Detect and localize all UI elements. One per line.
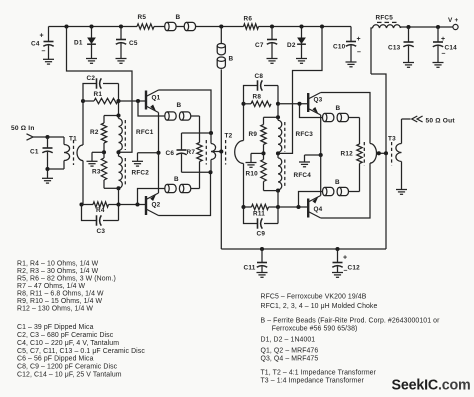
svg-text:R5, R6 – 82 Ohms, 3 W (Nom.): R5, R6 – 82 Ohms, 3 W (Nom.) xyxy=(17,275,116,282)
ground C11 xyxy=(257,273,268,278)
node T3 tap a xyxy=(377,151,381,155)
svg-text:R7: R7 xyxy=(187,149,196,156)
svg-text:T3 – 1:4 Impedance Transformer: T3 – 1:4 Impedance Transformer xyxy=(261,377,365,384)
resistor R2 xyxy=(90,116,107,153)
wire input to T1 xyxy=(48,137,65,169)
output wire xyxy=(402,118,411,120)
wire T1 secondary top to node A xyxy=(82,101,84,145)
node T3 tap b xyxy=(384,151,388,155)
node rail-bias-right xyxy=(320,24,324,28)
capacitor C4 xyxy=(31,27,54,60)
inductor RFC1 xyxy=(119,116,154,153)
capacitor C13 xyxy=(388,27,414,63)
node R9-R10 junction xyxy=(261,151,265,155)
svg-text:C8: C8 xyxy=(255,73,264,80)
wire emitter ground stub stage2 xyxy=(305,155,321,162)
node C7-rail xyxy=(270,24,274,28)
wire R2-RFC1 top node xyxy=(104,113,121,117)
transistor Q2 xyxy=(146,193,161,216)
svg-text:+: + xyxy=(343,255,347,262)
wire R9-RFC3 top node xyxy=(264,115,281,119)
svg-text:V +: V + xyxy=(448,17,458,24)
svg-text:50 Ω In: 50 Ω In xyxy=(11,125,35,132)
wire Q2 base-bead path xyxy=(138,189,165,205)
svg-text:C12: C12 xyxy=(348,265,361,272)
diode D1 xyxy=(74,27,96,59)
node C14 xyxy=(436,25,440,29)
wire Q2 collector xyxy=(159,172,211,215)
wire T2 bottom node xyxy=(182,171,211,173)
ground input xyxy=(42,169,53,183)
svg-text:RFC5: RFC5 xyxy=(376,14,394,21)
capacitor C8 xyxy=(244,73,279,104)
capacitor C5 xyxy=(116,27,138,59)
svg-text:C5, C7, C11, C13 – 0.1 μF Cera: C5, C7, C11, C13 – 0.1 μF Ceramic Disc xyxy=(17,348,145,355)
svg-text:C12, C14 – 10 μF, 25 V Tantalu: C12, C14 – 10 μF, 25 V Tantalum xyxy=(17,372,122,379)
wire base Q1 xyxy=(119,100,147,102)
node D2-rail xyxy=(299,24,303,28)
svg-text:C13: C13 xyxy=(388,45,401,52)
inductor RFC3 xyxy=(278,117,313,153)
svg-text:B – Ferrite Beads (Fair-Rite P: B – Ferrite Beads (Fair-Rite Prod. Corp.… xyxy=(261,318,441,325)
transformer T2 secondary xyxy=(235,104,244,207)
node emitter mid stage2 xyxy=(319,153,323,157)
capacitor C9 xyxy=(244,207,279,238)
node C13 xyxy=(406,25,410,29)
svg-text:Q3, Q4 – MRF475: Q3, Q4 – MRF475 xyxy=(261,355,319,362)
svg-text:T1: T1 xyxy=(69,135,77,142)
ferrite bead B Q2-a xyxy=(165,184,176,192)
resistor R6 xyxy=(244,16,259,30)
svg-text:B: B xyxy=(174,176,179,183)
node Q3 base xyxy=(297,102,301,106)
node RFC1-RFC2 junction xyxy=(116,150,120,154)
svg-text:SeekIC.com: SeekIC.com xyxy=(392,377,471,393)
svg-text:R3: R3 xyxy=(92,169,101,176)
svg-text:+: + xyxy=(357,36,361,43)
label B Q4 beads xyxy=(335,179,340,186)
svg-text:R1, R4 – 10 Ohms, 1/4 W: R1, R4 – 10 Ohms, 1/4 W xyxy=(17,260,99,267)
ferrite bead B (R5 right) xyxy=(184,22,195,30)
wire bottom node xyxy=(104,188,119,204)
node Q1 base xyxy=(136,99,140,103)
svg-text:RFC5 – Ferroxcube VK200 19/4B: RFC5 – Ferroxcube VK200 19/4B xyxy=(261,293,367,300)
svg-text:R8: R8 xyxy=(253,94,262,101)
transistor Q4 xyxy=(308,196,322,219)
svg-text:R2: R2 xyxy=(90,129,99,136)
ferrite bead B Q2-b xyxy=(179,184,190,192)
terminal V+ xyxy=(448,17,458,30)
wire Q1 emitter xyxy=(158,113,160,153)
node Q4 base xyxy=(296,205,300,209)
svg-text:B: B xyxy=(176,14,181,21)
ferrite bead B Q3-b xyxy=(337,113,348,121)
wire Q4 base-bead path xyxy=(299,192,323,208)
wire T2 top node xyxy=(182,132,212,134)
ground for C14 xyxy=(433,63,444,68)
svg-text:C1: C1 xyxy=(30,149,39,156)
svg-text:B: B xyxy=(229,56,234,63)
ground for C10 xyxy=(346,62,357,67)
svg-text:C6: C6 xyxy=(166,150,175,157)
node R2-R3 junction xyxy=(102,150,106,154)
input arrow xyxy=(27,134,48,140)
node emitter mid xyxy=(156,151,160,155)
wire Q3 base-bead path xyxy=(300,104,323,118)
node T2 center tap xyxy=(219,149,223,153)
svg-text:C2: C2 xyxy=(87,75,96,82)
transformer T3 secondary xyxy=(396,119,402,190)
svg-text:D1, D2 – 1N4001: D1, D2 – 1N4001 xyxy=(261,337,316,344)
capacitor C6 xyxy=(166,133,187,172)
ferrite bead B Q1-b xyxy=(179,112,190,120)
svg-text:C7: C7 xyxy=(255,42,264,49)
transistor Q1 xyxy=(146,90,161,113)
capacitor C11 xyxy=(244,249,268,273)
ground R2-R3 xyxy=(87,161,98,166)
resistor R3 xyxy=(92,152,107,188)
node stage1 bottom xyxy=(116,186,120,190)
svg-text:C4: C4 xyxy=(31,41,40,48)
svg-text:T1, T2 – 4:1 Impedance Transfo: T1, T2 – 4:1 Impedance Transformer xyxy=(261,369,377,376)
resistor R4 xyxy=(79,202,118,214)
wire base Q3 xyxy=(278,103,308,105)
svg-text:C11: C11 xyxy=(244,265,256,272)
svg-text:B: B xyxy=(336,105,341,112)
diode D2 xyxy=(287,27,306,59)
resistor R10 xyxy=(246,153,267,190)
svg-text:C14: C14 xyxy=(445,45,458,52)
inductor RFC4 xyxy=(278,153,311,190)
svg-text:C6 – 56 pF Dipped Mica: C6 – 56 pF Dipped Mica xyxy=(17,356,94,363)
svg-text:R5: R5 xyxy=(138,14,147,21)
svg-text:50 Ω Out: 50 Ω Out xyxy=(426,117,456,124)
ground for C5 xyxy=(116,59,127,64)
svg-text:R2, R3 – 30 Ohms, 1/4 W: R2, R3 – 30 Ohms, 1/4 W xyxy=(17,268,99,275)
transformer T3 primary xyxy=(370,135,396,163)
ground for D1 xyxy=(86,59,97,64)
wire bottom node stage2 xyxy=(264,191,279,207)
wire tap feed to bus xyxy=(385,153,387,249)
wire Q3 collector xyxy=(321,93,370,144)
wire beads to R12 bottom xyxy=(349,164,360,192)
wire bias feed right xyxy=(280,27,322,154)
node R8 right xyxy=(276,102,280,106)
node rail-bead-feed xyxy=(219,24,223,28)
wire V+ rail xyxy=(409,26,454,28)
transformer T1 xyxy=(64,135,83,169)
ground for C4 xyxy=(43,59,54,64)
transistor Q3 xyxy=(308,93,322,116)
svg-text:Q3: Q3 xyxy=(314,97,323,104)
label B Q2 beads xyxy=(174,176,179,183)
capacitor C12 xyxy=(332,249,360,275)
core T3 left xyxy=(363,142,365,166)
label 50 ohm Out xyxy=(426,117,456,124)
wire to left ground stage2 xyxy=(251,153,264,162)
resistor R12 xyxy=(341,144,363,164)
svg-text:C9: C9 xyxy=(257,231,266,238)
ground C12 xyxy=(332,273,343,278)
wire Q3 emitter xyxy=(320,115,322,155)
wire to left ground xyxy=(92,152,104,161)
svg-text:Q4: Q4 xyxy=(314,206,323,213)
svg-text:–: – xyxy=(442,51,446,58)
ground R9-R10 xyxy=(246,163,257,168)
ferrite bead B Q1-a xyxy=(165,112,176,120)
label 50 ohm In xyxy=(11,125,35,132)
resistor R5 xyxy=(137,14,154,29)
ferrite bead B Q4-b xyxy=(337,187,348,195)
wire R11 to Q4 base xyxy=(278,206,308,208)
wire emitter ground stub xyxy=(138,153,159,162)
output arrows xyxy=(412,116,423,122)
svg-text:–: – xyxy=(344,268,348,275)
svg-text:C8, C9 – 1200 pF Ceramic Disc: C8, C9 – 1200 pF Ceramic Disc xyxy=(17,364,118,371)
wire bias feed left xyxy=(67,27,133,153)
node RFC3-RFC4 junction xyxy=(276,151,280,155)
wire R4 to Q2 base xyxy=(119,204,147,206)
svg-text:RFC2: RFC2 xyxy=(132,170,150,177)
wire beads to R12 top xyxy=(349,118,360,145)
inductor RFC5 xyxy=(371,14,409,74)
svg-text:+: + xyxy=(441,36,445,43)
wire Q1 collector xyxy=(159,90,212,133)
resistor R11 xyxy=(241,204,278,217)
svg-text:D2: D2 xyxy=(287,42,296,49)
ground emitters stage1 xyxy=(132,161,143,166)
ground for C13 xyxy=(403,63,414,68)
label B Q3 beads xyxy=(336,105,341,112)
wire R8 node down xyxy=(277,104,279,118)
svg-text:RFC3: RFC3 xyxy=(296,131,314,138)
node A R1-C2 left xyxy=(81,99,85,103)
svg-text:+: + xyxy=(40,33,44,40)
SeekIC.com watermark xyxy=(392,377,471,393)
svg-text:B: B xyxy=(335,179,340,186)
core RFC3 xyxy=(284,122,286,152)
svg-text:Ferroxcube #56 590 65/38): Ferroxcube #56 590 65/38) xyxy=(272,326,358,333)
svg-text:RFC1: RFC1 xyxy=(136,129,154,136)
inductor RFC2 xyxy=(119,152,150,188)
wire feed to T2 tap and bus xyxy=(220,69,222,249)
wire Q4 collector xyxy=(321,163,370,218)
svg-text:Q1: Q1 xyxy=(152,95,161,102)
svg-text:D1: D1 xyxy=(74,39,83,46)
wire top supply rail xyxy=(49,26,352,28)
core T2 right xyxy=(225,140,227,165)
svg-text:–: – xyxy=(357,49,361,56)
svg-text:R8, R11 – 6.8 Ohms, 1/4 W: R8, R11 – 6.8 Ohms, 1/4 W xyxy=(17,290,104,297)
core T2 left xyxy=(205,140,207,165)
wire supply bus xyxy=(221,248,386,250)
svg-text:R11: R11 xyxy=(253,211,265,218)
svg-text:C2, C3 – 680 pF Ceramic Disc: C2, C3 – 680 pF Ceramic Disc xyxy=(17,332,114,339)
label B top beads xyxy=(176,14,181,21)
core RFC1 xyxy=(124,120,126,150)
parts list chokes beads diodes transistors xyxy=(261,293,441,384)
node rail-bias-left xyxy=(64,24,68,28)
node C11 bus xyxy=(260,247,264,251)
svg-text:Q2: Q2 xyxy=(152,202,161,209)
svg-text:R6: R6 xyxy=(244,16,253,23)
capacitor C10 xyxy=(333,27,361,63)
node C5-rail xyxy=(119,24,123,28)
wire Q4 emitter xyxy=(320,155,322,196)
ferrite bead B Q4-a xyxy=(323,187,334,195)
node R4 right xyxy=(116,202,120,206)
node T2 primary top xyxy=(209,131,213,135)
svg-text:R7 – 47 Ohms, 1/4 W: R7 – 47 Ohms, 1/4 W xyxy=(17,283,86,290)
capacitor C2 xyxy=(83,75,119,101)
ferrite bead B vertical lower xyxy=(217,56,233,69)
svg-text:C1 – 39 pF Dipped Mica: C1 – 39 pF Dipped Mica xyxy=(17,324,94,331)
core RFC4 xyxy=(284,160,286,189)
capacitor C3 xyxy=(82,205,119,236)
parts list resistors and capacitors xyxy=(17,260,145,378)
wire T1 secondary bottom to R4 xyxy=(82,161,84,205)
svg-text:C5: C5 xyxy=(129,40,138,47)
core RFC2 xyxy=(124,158,126,187)
resistor R7 xyxy=(187,143,203,162)
resistor R9 xyxy=(249,117,267,153)
ground for C7 xyxy=(267,59,278,64)
transformer T2 primary xyxy=(211,133,233,173)
node C8-R8 left xyxy=(241,102,245,106)
wire RFC5 to T3 tap feed xyxy=(371,74,386,153)
ferrite bead B vertical upper xyxy=(217,27,225,55)
svg-text:T2: T2 xyxy=(225,133,233,140)
ground emitters stage2 xyxy=(299,162,310,167)
wire Q2 emitter xyxy=(158,153,160,193)
ground for D2 xyxy=(296,59,307,64)
resistor R1 xyxy=(83,91,118,104)
capacitor C7 xyxy=(255,27,277,59)
wire R1 node down xyxy=(118,101,120,116)
node C1 top xyxy=(45,135,49,139)
ferrite bead B Q3-a xyxy=(323,113,334,121)
capacitor C14 xyxy=(433,27,457,63)
resistor R8 xyxy=(244,94,272,107)
svg-text:R9: R9 xyxy=(249,131,258,138)
svg-text:RFC1, 2, 3, 4 – 10 μH Molded C: RFC1, 2, 3, 4 – 10 μH Molded Choke xyxy=(261,303,378,310)
svg-text:Q1, Q2 – MRF476: Q1, Q2 – MRF476 xyxy=(261,347,319,354)
svg-text:C4, C10 – 220 μF, 4 V, Tantalu: C4, C10 – 220 μF, 4 V, Tantalum xyxy=(17,340,119,347)
svg-text:R1: R1 xyxy=(94,91,103,98)
capacitor C1 xyxy=(30,137,53,169)
svg-text:T3: T3 xyxy=(388,135,396,142)
node D1-rail xyxy=(89,24,93,28)
node R1 right xyxy=(116,99,120,103)
node C12 bus xyxy=(335,247,339,251)
svg-text:R10: R10 xyxy=(246,171,259,178)
svg-text:C3: C3 xyxy=(97,228,106,235)
label B Q1 beads xyxy=(177,102,182,109)
node stage2 bottom xyxy=(276,189,280,193)
svg-text:R12: R12 xyxy=(341,151,354,158)
svg-text:R12 – 130 Ohms, 1/4 W: R12 – 130 Ohms, 1/4 W xyxy=(17,305,93,312)
ferrite bead B (R5 left) xyxy=(165,22,176,30)
wire beads to R7 bottom xyxy=(191,162,200,189)
svg-text:R4: R4 xyxy=(96,207,105,214)
svg-text:B: B xyxy=(177,102,182,109)
wire beads to R7 top xyxy=(191,116,200,143)
wire Q1 base-bead path xyxy=(138,101,165,116)
node Q2 base xyxy=(135,202,139,206)
svg-text:RFC4: RFC4 xyxy=(294,172,312,179)
node T2 primary bottom xyxy=(208,170,212,174)
svg-text:–: – xyxy=(42,48,46,55)
core T3 right xyxy=(391,142,393,166)
svg-text:C10: C10 xyxy=(333,44,346,51)
node R11 right xyxy=(276,205,280,209)
svg-text:R9, R10 – 15 Ohms, 1/4 W: R9, R10 – 15 Ohms, 1/4 W xyxy=(17,298,103,305)
node C1 bottom xyxy=(45,167,49,171)
ground T3 secondary xyxy=(396,190,407,195)
